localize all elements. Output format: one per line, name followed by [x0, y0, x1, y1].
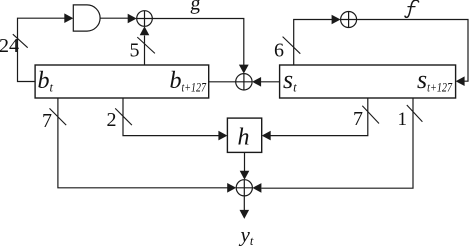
- svg-text:5: 5: [130, 40, 140, 62]
- wire b feedback: box left to AND input: [18, 18, 67, 81]
- arrowhead 1-tap into output xor: [252, 183, 261, 193]
- arrowhead f into S box right: [456, 76, 465, 86]
- wire f rail to S box right edge: [357, 20, 468, 82]
- wire 7-tap right from S bottom to h box: [271, 98, 368, 136]
- arrowhead 5-tap up into xor g: [140, 26, 150, 35]
- tick slash 7 left: [50, 108, 67, 125]
- box h: [227, 118, 261, 152]
- svg-text:st: st: [283, 65, 297, 95]
- label f: [405, 0, 419, 17]
- wire 2-tap from B bottom to h box: [123, 98, 219, 136]
- svg-text:g: g: [189, 0, 201, 15]
- tick slash 5: [137, 37, 155, 53]
- tick slash 24: [13, 34, 28, 48]
- svg-text:bt: bt: [38, 68, 54, 95]
- wire 1-tap from S bottom to output xor: [261, 98, 413, 188]
- xor gate f-out (right top): [341, 12, 357, 28]
- arrowhead s_t into mid xor: [252, 77, 261, 87]
- wire s_t output to mid xor: [261, 81, 280, 83]
- arrowhead 7-tap into h right: [262, 131, 271, 141]
- wire h output down to output xor: [244, 152, 246, 171]
- arrowhead into AND input: [64, 13, 73, 23]
- arrowhead 2-tap into h left: [218, 131, 227, 141]
- arrowhead 6-tap into xor f: [332, 15, 341, 25]
- AND gate: [73, 5, 100, 31]
- xor gate output (bottom): [236, 180, 252, 196]
- svg-text:7: 7: [353, 108, 363, 130]
- wire g rail to mid xor: [152, 19, 244, 67]
- svg-text:yt: yt: [239, 223, 254, 247]
- arrowhead keystream out: [240, 210, 250, 219]
- svg-text:6: 6: [274, 39, 284, 61]
- arrowhead h out into output xor: [240, 171, 250, 180]
- xor gate g-out (left top): [137, 11, 153, 27]
- wire 5-tap from B top into xor: [144, 36, 146, 66]
- arrowhead AND out into xor g: [128, 14, 137, 24]
- register box B (b_t ... b_t+127): [35, 65, 209, 98]
- wire keystream output y_t: [243, 196, 245, 210]
- svg-text:h: h: [238, 125, 250, 151]
- wire mid xor to B box right edge: [209, 81, 236, 83]
- svg-text:st+127: st+127: [417, 65, 453, 95]
- xor gate mid (feeds b_t+127): [236, 74, 252, 90]
- svg-text:1: 1: [398, 109, 408, 130]
- tick slash 1: [407, 105, 423, 122]
- register box S (s_t ... s_t+127): [280, 65, 456, 98]
- wire AND output to XOR g: [100, 17, 129, 19]
- svg-text:2: 2: [107, 109, 117, 131]
- tick slash 2: [115, 108, 132, 125]
- tick slash 7 right: [362, 106, 379, 124]
- tick slash 6: [283, 37, 301, 54]
- svg-text:7: 7: [42, 110, 52, 132]
- svg-text:bt+127: bt+127: [170, 68, 207, 95]
- svg-text:24: 24: [0, 35, 19, 57]
- wire 7-tap left from B bottom to output xor: [58, 98, 228, 188]
- arrowhead g rail down into mid xor: [239, 65, 249, 74]
- wire 6-tap from S top to xor f: [294, 20, 332, 66]
- arrowhead 7-left into output xor: [227, 183, 236, 193]
